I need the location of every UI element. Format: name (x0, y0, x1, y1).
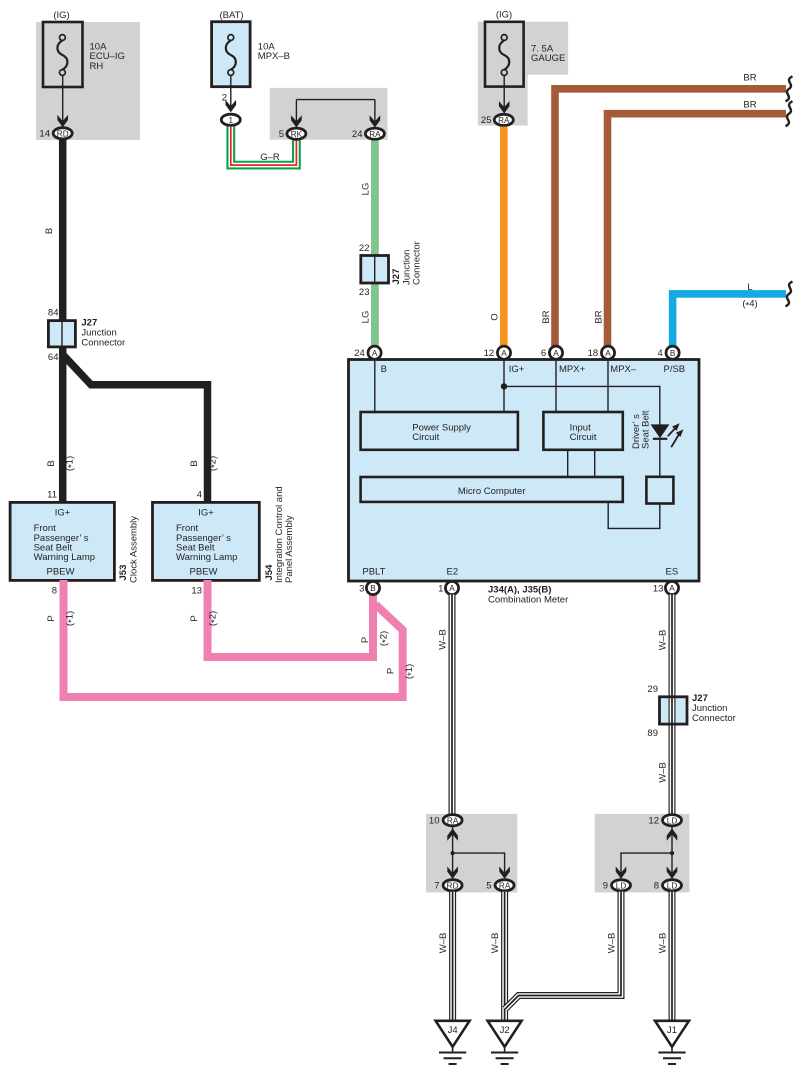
ground J4 (436, 1021, 470, 1064)
arrow up into 10RA (447, 828, 458, 840)
svg-text:8: 8 (52, 585, 57, 596)
caption J34(A), J35(B) Combination Meter (488, 585, 568, 606)
label J53 Clock Assembly (rotated) (118, 516, 140, 583)
svg-text:(*2): (*2) (208, 611, 221, 626)
svg-text:(*1): (*1) (65, 611, 78, 626)
combination meter box J34(A) J35(B) (349, 360, 700, 582)
svg-text:LG: LG (361, 311, 372, 324)
svg-text:PBLT: PBLT (362, 567, 385, 578)
pin 3 B (366, 581, 379, 594)
brace wire 2 continues (786, 101, 793, 126)
svg-text:25: 25 (481, 115, 492, 126)
svg-text:6: 6 (541, 348, 546, 359)
svg-text:3: 3 (359, 584, 364, 595)
wire B branch (thick black) to J54 pin 4 (63, 355, 208, 503)
svg-text:12: 12 (648, 816, 659, 827)
svg-text:A: A (501, 349, 507, 358)
wires input circuit to micro computer (567, 450, 569, 477)
svg-text:RD: RD (447, 882, 459, 891)
svg-text:LD: LD (616, 882, 627, 891)
svg-text:ES: ES (666, 567, 679, 578)
gray highlight box RK/RA (270, 88, 388, 140)
arrows down into 9LD and 8LD (616, 867, 627, 879)
junction connector J27 pins 29/89 (fill) (660, 697, 688, 724)
svg-text:E2: E2 (446, 567, 458, 578)
wire BR 2 (brown) (608, 114, 787, 346)
svg-text:Clock Assembly: Clock Assembly (129, 516, 140, 583)
fuse element curve (57, 40, 67, 69)
brace wire L continues (786, 281, 793, 306)
node oval 1 (221, 114, 240, 125)
svg-text:13: 13 (653, 584, 664, 595)
wire BR 1 (brown) (555, 89, 786, 346)
arrow into RK (291, 115, 302, 127)
wire G-R from node 1 to RK (231, 127, 297, 166)
wire W-B 5RA to ground J2 (501, 892, 508, 1021)
svg-text:24: 24 (352, 129, 363, 140)
LED driver's seat belt indicator (651, 425, 668, 439)
connector oval LD pin 12 (663, 815, 682, 826)
value label 10A MPX-B (258, 41, 290, 62)
wire 10RA to 7RD / 5RA (452, 827, 454, 879)
svg-text:64: 64 (48, 352, 59, 363)
svg-text:O: O (490, 313, 501, 320)
svg-text:8: 8 (654, 881, 659, 892)
label B (*1) above J53 (46, 456, 78, 471)
svg-text:(*1): (*1) (65, 456, 78, 471)
svg-text:7: 7 (434, 881, 439, 892)
pin 24 A (368, 346, 381, 359)
svg-text:GAUGE: GAUGE (531, 53, 565, 64)
svg-text:(BAT): (BAT) (219, 10, 243, 21)
inner wire IG+ to LED (504, 386, 660, 425)
value label 7.5A GAUGE (531, 43, 565, 64)
wire B (thick black) RD to J53 pin 11 (59, 139, 67, 502)
wire RK to RA link (295, 100, 297, 127)
wire P (*1) J53 pin 8 to meter PBLT (64, 580, 403, 697)
svg-text:A: A (372, 349, 378, 358)
svg-text:J1: J1 (667, 1025, 677, 1036)
svg-text:1: 1 (438, 584, 443, 595)
svg-text:BR: BR (743, 100, 756, 111)
svg-text:11: 11 (47, 489, 57, 500)
svg-text:BR: BR (541, 310, 552, 323)
svg-text:W–B: W–B (490, 933, 501, 954)
arrows down into 7RD and 5RA (447, 867, 458, 879)
label J54 Integration Control and Panel Assembly (rotated) (264, 486, 295, 583)
wire W-B from E2 to 10 RA (449, 595, 456, 816)
svg-text:Warning Lamp: Warning Lamp (176, 552, 237, 563)
svg-text:B: B (44, 228, 55, 234)
wire fuse to node 1 (230, 75, 232, 106)
label P (*1) below J53 (46, 611, 78, 626)
node dot (451, 851, 455, 855)
svg-text:18: 18 (588, 348, 599, 359)
svg-text:Combination Meter: Combination Meter (488, 595, 568, 606)
svg-text:22: 22 (359, 243, 370, 254)
wire O (orange) to meter pin 12 (500, 127, 508, 346)
svg-text:MPX+: MPX+ (559, 364, 586, 375)
svg-text:1: 1 (229, 116, 234, 125)
brace wire 1 continues (786, 76, 793, 101)
svg-text:RH: RH (90, 61, 104, 72)
fuse element curve (499, 40, 509, 69)
svg-text:IG+: IG+ (55, 508, 71, 519)
svg-text:RA: RA (369, 130, 381, 139)
svg-text:L: L (747, 282, 752, 293)
svg-text:G–R: G–R (260, 152, 280, 163)
svg-text:IG+: IG+ (509, 364, 525, 375)
wire LG from RA to meter pin 24 (371, 141, 379, 347)
inner wire MPX- (607, 361, 609, 412)
label J27 Junction Connector (rotated) (391, 241, 423, 285)
pin 1 A (445, 581, 458, 594)
svg-text:P: P (360, 637, 371, 643)
wire P (*2) J54 pin 13 to meter PBLT (208, 580, 374, 657)
svg-text:LG: LG (361, 183, 372, 196)
resistor box (646, 477, 673, 504)
svg-text:4: 4 (197, 489, 202, 500)
svg-text:Warning Lamp: Warning Lamp (34, 552, 95, 563)
svg-text:PBEW: PBEW (190, 566, 218, 577)
connector oval RA pin 25 (494, 114, 513, 125)
wire W-B 8LD to ground J1 (669, 892, 676, 1021)
svg-text:MPX–B: MPX–B (258, 51, 290, 62)
J53 texts (34, 508, 95, 578)
svg-text:(*2): (*2) (379, 631, 392, 646)
gray highlight box (426, 814, 517, 893)
svg-text:PBEW: PBEW (47, 566, 75, 577)
fuse element curve (226, 40, 236, 69)
svg-text:BR: BR (743, 73, 756, 84)
gray highlight box (IG fuse area) (36, 22, 140, 140)
connector oval RD pin 14 (53, 128, 72, 139)
svg-text:(IG): (IG) (53, 10, 69, 21)
svg-text:Circuit: Circuit (412, 432, 439, 443)
svg-text:A: A (605, 349, 611, 358)
svg-text:RK: RK (291, 130, 303, 139)
label P (*1) near PBLT (386, 664, 418, 679)
J54 texts (176, 508, 237, 578)
wire W-B 9LD joining J2 (505, 892, 621, 1009)
svg-text:A: A (449, 584, 455, 593)
arrow into RD (57, 115, 68, 127)
svg-text:4: 4 (658, 348, 663, 359)
svg-text:24: 24 (354, 348, 365, 359)
svg-text:B: B (370, 584, 376, 593)
connector oval RA pin 10 (443, 815, 462, 826)
svg-text:J53: J53 (118, 565, 129, 581)
svg-text:W–B: W–B (658, 762, 669, 783)
svg-text:LD: LD (667, 882, 678, 891)
ground J2 (488, 1021, 522, 1064)
svg-text:5: 5 (486, 881, 491, 892)
svg-text:MPX–: MPX– (610, 364, 637, 375)
arrow into RA (499, 101, 510, 113)
inner wire IG+ (503, 361, 505, 412)
label P (*2) near PBLT (360, 631, 392, 646)
svg-text:Panel Assembly: Panel Assembly (284, 515, 295, 583)
label J27 Junction Connector (81, 317, 125, 348)
svg-text:IG+: IG+ (198, 508, 214, 519)
svg-text:P: P (46, 615, 57, 621)
ground J1 (655, 1021, 689, 1064)
wire W-B 7RD to ground J4 (449, 892, 456, 1021)
svg-text:23: 23 (359, 287, 370, 298)
junction connector J27 pins 84/64 (48, 321, 75, 347)
label J27 Junction Connector (692, 693, 736, 724)
gray highlight (GAUGE fuse area, L-shape) (478, 22, 568, 126)
svg-text:A: A (553, 349, 559, 358)
pin 18 A (601, 346, 614, 359)
svg-text:5: 5 (279, 129, 284, 140)
connector oval LD pin 9 (612, 880, 631, 891)
svg-text:A: A (669, 584, 675, 593)
gray highlight box (595, 814, 690, 893)
svg-text:9: 9 (603, 881, 608, 892)
wire fuse to connector RD (62, 75, 64, 127)
arrow into node 1 (226, 100, 237, 112)
svg-text:P: P (189, 615, 200, 621)
power supply circuit box (361, 412, 518, 450)
node dot IG+ (501, 383, 507, 389)
connector oval RD pin 7 (443, 880, 462, 891)
svg-text:(*1): (*1) (404, 664, 417, 679)
svg-text:J27: J27 (391, 269, 402, 285)
svg-text:(IG): (IG) (496, 10, 512, 21)
pin 12 A (497, 346, 510, 359)
svg-text:J4: J4 (448, 1025, 458, 1036)
inner wire B (374, 361, 376, 412)
fuse GAUGE body (485, 22, 524, 87)
node dot (670, 851, 674, 855)
svg-text:29: 29 (647, 684, 658, 695)
svg-text:J2: J2 (500, 1025, 510, 1036)
svg-text:LD: LD (667, 817, 678, 826)
LED emission arrows (668, 423, 684, 447)
fuse MPX-B body (212, 22, 251, 87)
svg-text:B: B (189, 460, 200, 466)
pin 4 B (666, 346, 679, 359)
label P (*2) below J54 (189, 611, 221, 626)
wire L (blue) to meter pin 4 (673, 294, 786, 346)
svg-text:B: B (381, 364, 387, 375)
pin 6 A (549, 346, 562, 359)
micro computer box (361, 477, 623, 502)
svg-text:RD: RD (57, 130, 69, 139)
arrow up into 12LD (667, 828, 678, 840)
svg-text:RA: RA (499, 882, 511, 891)
svg-text:12: 12 (484, 348, 495, 359)
fuse F ECU-IG body (43, 22, 83, 87)
wire fuse to RA (503, 75, 505, 113)
svg-text:P: P (386, 668, 397, 674)
component box J53 (10, 502, 114, 580)
svg-text:RA: RA (498, 116, 510, 125)
svg-text:Seat Belt: Seat Belt (640, 410, 651, 449)
connector oval RA pin 24 (365, 128, 384, 139)
svg-text:Connector: Connector (692, 713, 736, 724)
arrow into RA (370, 115, 381, 127)
svg-text:14: 14 (39, 129, 50, 140)
svg-text:13: 13 (191, 585, 202, 596)
svg-text:Connector: Connector (81, 337, 125, 348)
input circuit box (543, 412, 622, 450)
svg-text:(*4): (*4) (742, 299, 757, 312)
wire LED to resistor box (659, 439, 661, 477)
svg-text:B: B (670, 349, 676, 358)
svg-text:W–B: W–B (438, 933, 449, 954)
junction connector J27 pins 22/23 (361, 256, 389, 284)
svg-text:89: 89 (647, 728, 658, 739)
svg-text:(*2): (*2) (208, 456, 221, 471)
svg-text:W–B: W–B (438, 629, 449, 650)
svg-text:P/SB: P/SB (664, 364, 686, 375)
wire 12LD to 9LD / 8LD (671, 827, 673, 879)
svg-text:84: 84 (48, 307, 59, 318)
svg-text:W–B: W–B (658, 630, 669, 651)
connector oval LD pin 8 (663, 880, 682, 891)
connector oval RK pin 5 (287, 128, 306, 139)
label Driver's Seat Belt (rotated) (631, 410, 652, 449)
svg-text:Circuit: Circuit (570, 432, 597, 443)
svg-text:Connector: Connector (412, 241, 423, 285)
junction connector J27 pins 29/89 (border) (660, 697, 688, 724)
connector oval RA pin 5 (495, 880, 514, 891)
label B (*2) above J54 (189, 456, 221, 471)
wire W-B from ES through J27 to 12 LD (669, 595, 676, 816)
inner wire MPX+ (555, 361, 557, 412)
svg-text:10: 10 (429, 816, 440, 827)
svg-text:Micro Computer: Micro Computer (458, 486, 526, 497)
svg-text:B: B (46, 460, 57, 466)
svg-text:W–B: W–B (658, 933, 669, 954)
svg-text:RA: RA (447, 817, 459, 826)
svg-text:BR: BR (594, 310, 605, 323)
component box J54 (153, 502, 260, 580)
pin 13 A (665, 581, 678, 594)
svg-text:W–B: W–B (607, 933, 618, 954)
wire resistor to micro computer (608, 502, 660, 529)
